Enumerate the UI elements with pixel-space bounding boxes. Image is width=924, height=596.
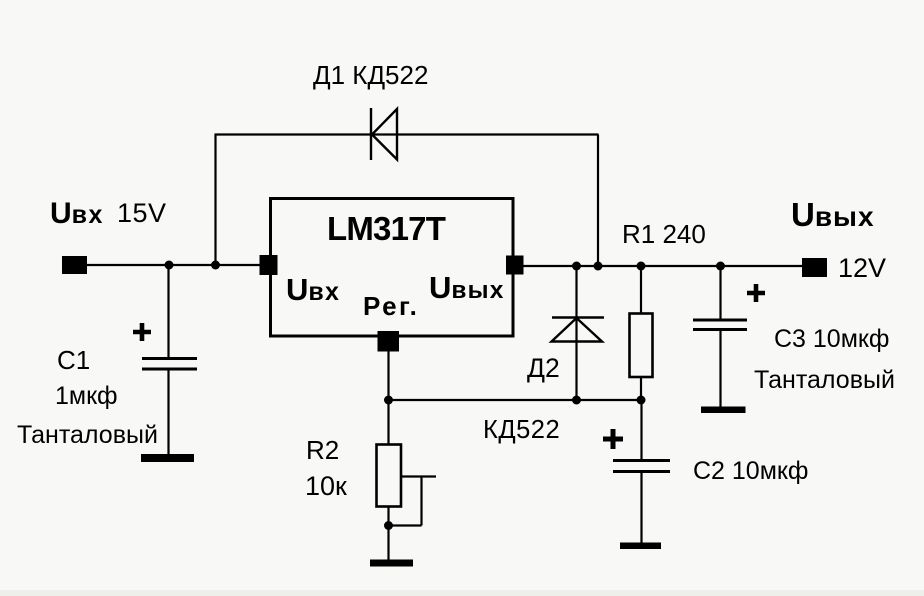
node: output junction to D2 [572, 262, 581, 271]
wire: R2 wiper vertical return [420, 477, 422, 526]
ground of C2 [620, 543, 661, 550]
svg-text:С3 10мкф: С3 10мкф [774, 325, 889, 353]
wire: R2 wiper return to bottom lead [389, 524, 422, 526]
polarity plus of C1 [133, 323, 151, 341]
pin: LM317 output pin [506, 256, 524, 275]
node: R2 wiper return junction [384, 521, 393, 530]
svg-text:R1 240: R1 240 [622, 219, 706, 249]
bottom edge strip [0, 590, 924, 596]
resistor R2 body (trimmer) [377, 445, 402, 507]
resistor R1 body [630, 314, 653, 378]
ground of C1 [141, 454, 194, 462]
node: bottom bus junction at R1/C2 [637, 396, 646, 405]
node: bottom bus junction at D2 [572, 396, 581, 405]
capacitor C3 top plate [693, 319, 747, 322]
svg-text:С1: С1 [57, 345, 90, 375]
svg-text:Uвх: Uвх [286, 272, 340, 307]
svg-text:15V: 15V [117, 198, 167, 228]
wire: R1 lower lead [640, 376, 642, 400]
svg-text:R2: R2 [306, 435, 339, 465]
capacitor C3 bottom plate [693, 328, 747, 331]
pin: LM317 adjust pin [378, 331, 400, 352]
svg-text:Рег.: Рег. [363, 291, 419, 321]
diode D1 triangle [372, 109, 397, 160]
svg-text:Uвых: Uвых [791, 196, 875, 233]
svg-text:10к: 10к [305, 471, 347, 501]
wire: C3 lower lead to ground [719, 330, 721, 409]
wire: bottom bus from R2 node to R1/C2 node [389, 399, 642, 401]
diode D2 cathode bar [552, 316, 604, 318]
wire: R2 upper lead [387, 400, 389, 445]
capacitor C2 bottom plate [613, 470, 670, 473]
wire: C1 lower lead to ground [167, 369, 169, 457]
polarity plus of C3 [747, 284, 765, 302]
node: output junction to R1 [637, 262, 646, 271]
node: bottom bus junction at R2 [384, 396, 393, 405]
svg-text:С2 10мкф: С2 10мкф [693, 457, 808, 485]
svg-text:КД522: КД522 [483, 416, 560, 444]
svg-text:Танталовый: Танталовый [17, 421, 158, 449]
output terminal pad [802, 258, 827, 277]
ground of R2 [370, 560, 413, 567]
wire: R2 wiper horizontal stub [401, 475, 436, 477]
wire: input terminal to LM317 input pin [80, 264, 266, 266]
ground of C3 [701, 407, 746, 414]
node: input junction to riser [211, 261, 220, 270]
svg-text:Д1 КД522: Д1 КД522 [313, 60, 428, 90]
svg-text:LM317T: LM317T [327, 210, 446, 247]
node: output junction to riser [594, 262, 603, 271]
capacitor C1 top plate [142, 357, 197, 360]
diode D2 triangle [552, 318, 603, 342]
diode D1 cathode bar [370, 108, 372, 160]
capacitor C1 bottom plate [142, 368, 197, 371]
node: input junction to C1 [165, 261, 174, 270]
wire: left riser from input node up to top wire [214, 135, 216, 266]
svg-text:12V: 12V [838, 253, 886, 283]
svg-text:Д2: Д2 [527, 353, 560, 383]
wire: R1 upper lead [640, 266, 642, 315]
wire: top horizontal wire through diode D1 [215, 133, 599, 135]
wire: D2 branch from output wire down to bottom bus [575, 266, 577, 400]
input terminal pad [62, 256, 87, 274]
pin: LM317 input pin [260, 255, 278, 275]
wire: C2 upper lead [640, 400, 642, 460]
svg-text:Танталовый: Танталовый [754, 366, 895, 394]
wire: right riser from top wire down to output wire [597, 135, 599, 267]
svg-text:1мкф: 1мкф [55, 382, 118, 410]
wire: C1 branch down from input wire [167, 265, 169, 358]
op-amp U1: LM317T regulator box [271, 199, 514, 337]
wire: LM317 output pin to output terminal [516, 265, 810, 267]
capacitor C2 top plate [613, 459, 670, 462]
wire: adjust pin lead down from Reg pin [387, 350, 389, 400]
node: output junction to C3 [716, 262, 725, 271]
wire: R2 lower lead to ground [387, 506, 389, 562]
wire: C2 lower lead to ground [640, 472, 642, 545]
svg-text:Uвх: Uвх [50, 197, 104, 230]
wire: C3 branch down from output wire [719, 266, 721, 319]
polarity plus of C2 [603, 429, 623, 449]
